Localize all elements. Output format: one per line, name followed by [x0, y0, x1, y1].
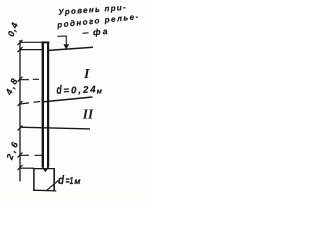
svg-text:=1: =1 — [66, 176, 74, 187]
svg-text:м: м — [74, 176, 81, 186]
svg-text:2,6: 2,6 — [4, 138, 21, 161]
svg-text:II: II — [82, 107, 94, 122]
svg-text:м: м — [96, 86, 103, 95]
svg-text:фа: фа — [93, 26, 110, 37]
svg-text:d: d — [58, 173, 65, 187]
svg-text:I: I — [83, 67, 90, 82]
svg-text:=0,24: =0,24 — [63, 84, 98, 96]
svg-text:d: d — [56, 83, 62, 97]
svg-text:4,8: 4,8 — [3, 75, 20, 97]
svg-text:0,4: 0,4 — [6, 21, 21, 38]
